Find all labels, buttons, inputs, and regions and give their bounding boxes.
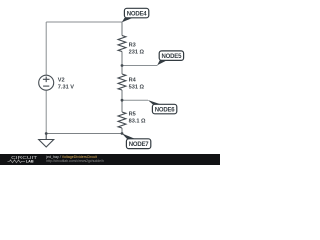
svg-text:V2: V2 [58,77,65,83]
svg-text:R3: R3 [129,43,136,49]
wire left vertical upper [45,22,47,75]
node NODE6 flag tail [148,100,161,104]
node NODE5 flag tail [157,60,168,65]
resistor R5 [118,112,126,128]
label R5 value [129,111,146,124]
node NODE7 flag tail [122,133,135,139]
wire bottom horizontal [46,133,122,135]
resistor R3 [118,36,126,52]
wire to NODE6 [122,99,148,101]
svg-text:R5: R5 [129,111,136,117]
svg-text:NODE6: NODE6 [155,107,176,113]
wire to NODE5 [122,65,158,67]
wire top horizontal [46,21,122,23]
wire left vertical lower [45,91,47,134]
footer bar [0,154,220,165]
node NODE5 [159,51,183,61]
node NODE7 [126,139,150,149]
svg-text:R4: R4 [129,77,137,83]
label V2 value [58,77,74,90]
label R4 value [129,77,145,90]
node NODE4 [124,8,148,17]
svg-text:231 Ω: 231 Ω [129,49,145,55]
svg-text:531 Ω: 531 Ω [129,84,145,90]
label R3 value [129,43,145,56]
svg-text:LAB: LAB [26,160,34,164]
junction node below R4 [121,99,124,102]
junction node bottom right [121,132,124,135]
svg-text:http://circuitlab.com/c/rews2g: http://circuitlab.com/c/rews2gchudde/h [46,159,104,163]
CircuitLab logo [8,155,38,163]
svg-text:NODE7: NODE7 [129,142,150,148]
svg-text:7.31 V: 7.31 V [58,85,74,91]
svg-text:83.1 Ω: 83.1 Ω [129,119,146,125]
svg-text:NODE5: NODE5 [162,54,183,60]
node NODE4 flag tail [122,18,133,23]
junction node below R3 [121,64,124,67]
junction node at ground [45,132,48,135]
wire right vertical chain [121,22,123,134]
ground [39,134,54,148]
node NODE6 [152,104,176,114]
voltage source V2 [39,75,54,90]
svg-text:NODE4: NODE4 [127,11,148,17]
resistor R4 [118,74,126,90]
